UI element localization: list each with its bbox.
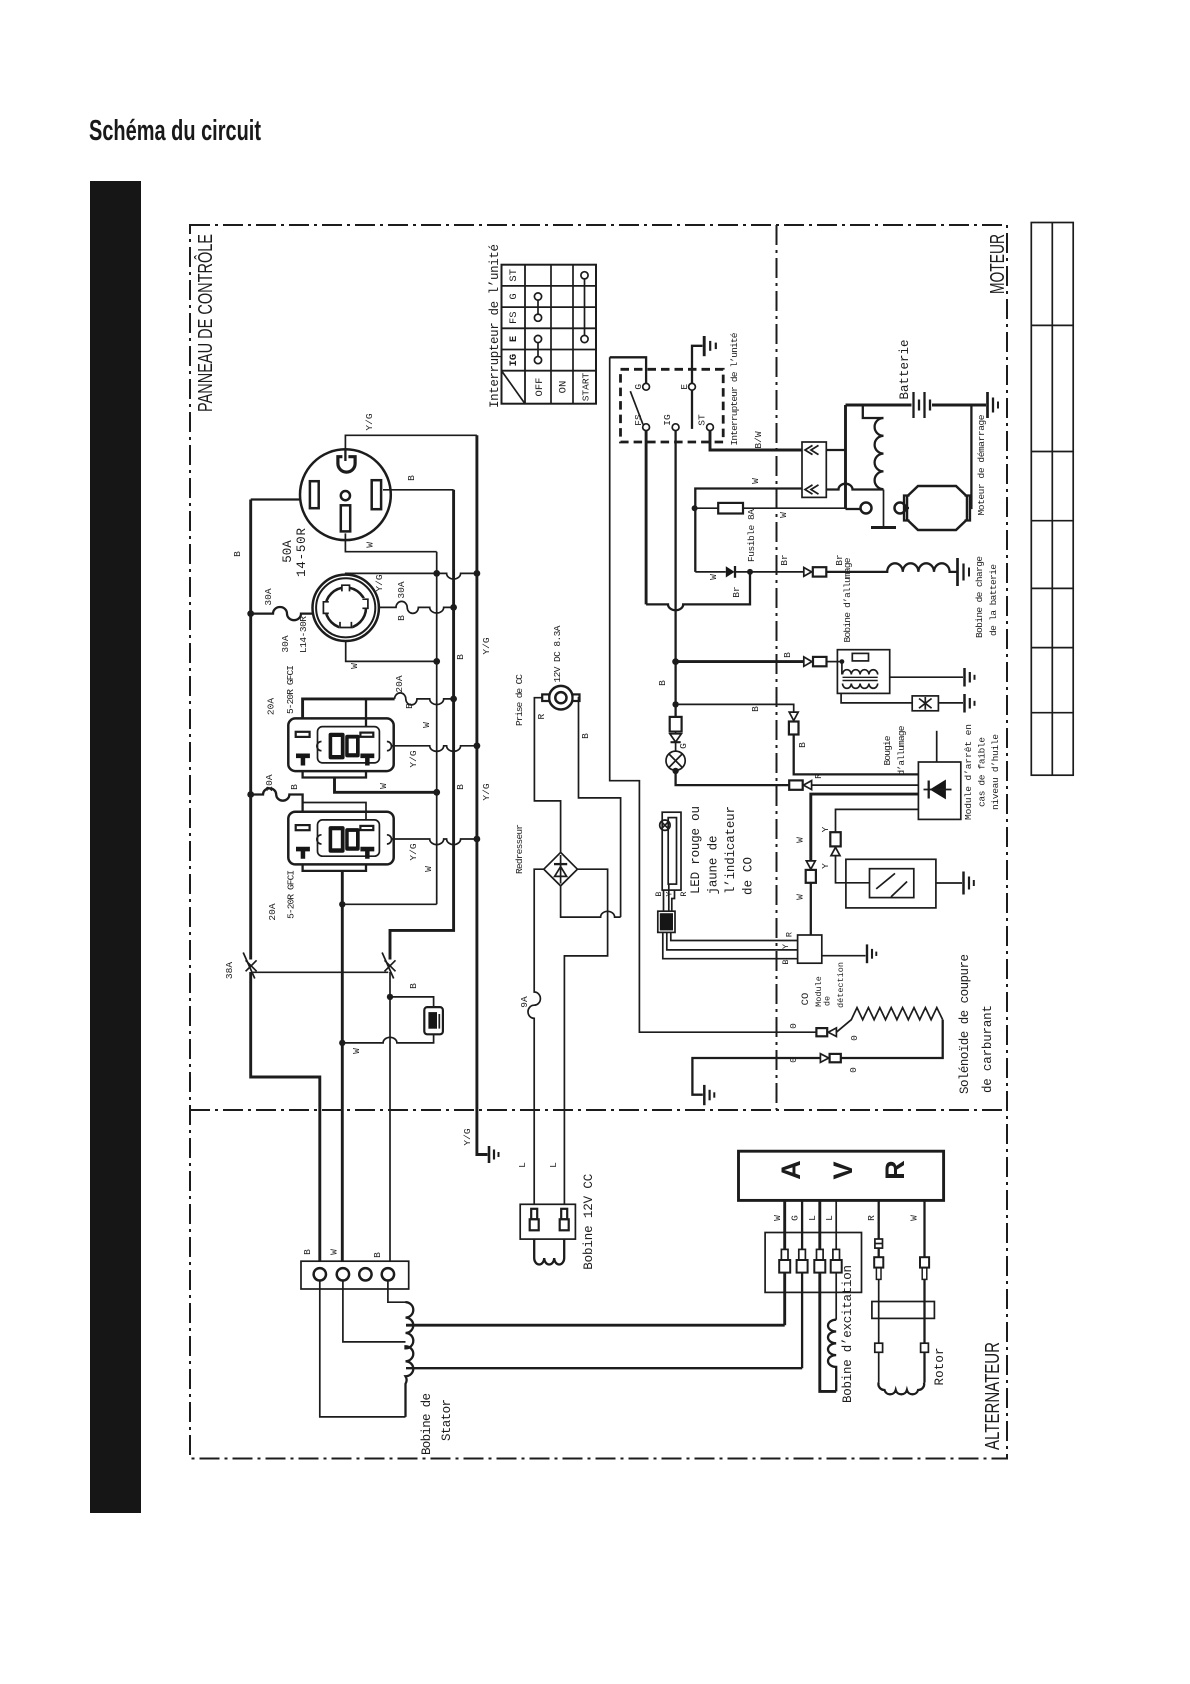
svg-text:ST: ST (697, 414, 708, 426)
main trunk from IG (674, 431, 676, 717)
svg-text:B: B (232, 551, 243, 557)
wire L14-30R right pin B + 30A breaker (379, 601, 454, 613)
ground (battery) (988, 392, 999, 418)
GFCI1 side notches (317, 742, 322, 751)
connector pins W (779, 1249, 790, 1272)
strip terminal 3 (359, 1268, 371, 1280)
fuse 8A body (718, 503, 743, 514)
wire GFCI1 Y/G (392, 746, 477, 752)
wire 14-50R B right (383, 489, 454, 491)
junction dot Y/G bus (474, 742, 481, 749)
junction dot left bus (247, 791, 254, 798)
svg-text:B: B (404, 703, 415, 709)
svg-text:20A: 20A (264, 774, 275, 791)
svg-text:Stator: Stator (440, 1399, 454, 1441)
wire L14-30R bottom W (346, 641, 437, 661)
stator wire terminal2 to coil mid (343, 1281, 406, 1342)
svg-text:B: B (372, 1252, 383, 1258)
svg-text:Interrupteur de l’unité: Interrupteur de l’unité (488, 244, 502, 408)
14-50R left slot (310, 481, 319, 508)
diode below fuse (670, 732, 681, 752)
svg-text:W: W (349, 663, 360, 669)
oil sensor slashes (876, 873, 907, 897)
svg-text:L: L (517, 1162, 528, 1168)
svg-text:B: B (396, 615, 407, 621)
svg-text:B: B (797, 742, 808, 748)
ignition coil inner resistor (852, 653, 868, 661)
svg-text:Br: Br (731, 586, 742, 597)
svg-text:B/W: B/W (753, 431, 764, 448)
svg-text:FS: FS (508, 311, 520, 324)
stator W output to AVR (406, 1324, 785, 1327)
GFCI1 inner outline (318, 727, 380, 763)
svg-text:Y/G: Y/G (408, 843, 419, 860)
B distribution bus (390, 490, 454, 960)
svg-text:Y/G: Y/G (408, 750, 419, 767)
wire to 12V socket top (390, 997, 434, 1007)
ground (fuel solenoid) (704, 1085, 714, 1105)
AVR W wire down-left (783, 1273, 786, 1326)
svg-text:Br: Br (779, 554, 790, 565)
stator terminal strip (301, 1261, 409, 1289)
svg-text:5-20R GFCI: 5-20R GFCI (286, 870, 297, 919)
svg-text:G: G (633, 384, 644, 390)
38A tie bar (253, 971, 388, 973)
stator wire terminal1 to coil bottom (320, 1281, 406, 1417)
starter connector box (802, 442, 826, 497)
svg-text:B: B (781, 959, 791, 964)
svg-text:ON: ON (558, 381, 570, 394)
wire right contact to motor (906, 507, 910, 509)
svg-text:Y: Y (781, 944, 791, 949)
wire E lower stub (691, 390, 693, 429)
ground (CO module) (867, 944, 876, 963)
AVR pin L2 (835, 1200, 837, 1249)
GFCI2 T-slots (296, 847, 374, 859)
svg-text:W: W (421, 722, 432, 728)
battery symbol (846, 392, 987, 418)
svg-text:G: G (678, 743, 689, 749)
svg-text:Rotor: Rotor (933, 1348, 947, 1386)
12V accessory socket (424, 1007, 443, 1034)
svg-text:niveau d’huile: niveau d’huile (990, 734, 1001, 810)
low-oil module top stub (936, 731, 938, 762)
OFF contacts G-FS (534, 293, 541, 321)
junction dot Y/G/link (474, 570, 481, 577)
svg-text:R: R (785, 932, 795, 937)
wire L14-30R left pin + 30A breaker (251, 607, 313, 620)
svg-text:START: START (581, 372, 592, 401)
svg-text:30A: 30A (396, 581, 407, 598)
CO module box (798, 935, 822, 963)
spark plug (Bougie) (912, 696, 938, 711)
svg-text:Y/G: Y/G (364, 413, 375, 430)
svg-text:MOTEUR: MOTEUR (987, 234, 1009, 294)
GFCI2 buttons (329, 826, 360, 853)
FS wire vertical (645, 431, 648, 605)
excitation coil (Bobine d'excitation) (828, 1320, 836, 1392)
svg-text:Fusible 8A: Fusible 8A (746, 509, 757, 562)
strip terminal 2 (337, 1268, 349, 1280)
battery charge coil (826, 563, 956, 572)
svg-text:W: W (329, 1249, 340, 1255)
AVR box (739, 1151, 944, 1200)
section divider horizontal (ALTERNATEUR) (190, 1109, 1007, 1111)
svg-text:W: W (909, 1215, 920, 1221)
svg-text:G: G (508, 293, 520, 299)
svg-text:Bobine de charge: Bobine de charge (974, 556, 985, 638)
DC socket (Prise de CC) (542, 686, 579, 710)
W distribution bus (436, 552, 438, 905)
svg-text:OFF: OFF (534, 378, 546, 397)
svg-text:B: B (302, 1249, 313, 1255)
stator wire terminal4 to coil top (388, 1281, 406, 1303)
svg-text:W: W (750, 478, 761, 484)
wire GFCI1 B feed + 20A breaker (303, 699, 395, 719)
L14-30R slot gaps (323, 584, 369, 629)
LED connector block (658, 911, 675, 932)
connector pins L1 (814, 1249, 825, 1272)
strip terminal 1 (314, 1268, 326, 1280)
solenoid plunger (883, 490, 885, 527)
thick B wire to ignition coil connector (676, 660, 804, 663)
svg-text:B: B (750, 706, 761, 712)
junction dot W bus (433, 658, 440, 665)
wire GFCI2 top-right pin (303, 803, 366, 820)
wire sensor to ground (936, 882, 962, 884)
svg-text:Batterie: Batterie (898, 340, 912, 400)
svg-text:Bobine de: Bobine de (420, 1393, 434, 1455)
thin B wire to module connector (676, 704, 794, 712)
LED wires to CO module Y (667, 932, 798, 950)
wire 14-50R W bottom (345, 533, 436, 551)
svg-text:Module d’arrêt en: Module d’arrêt en (963, 724, 974, 820)
AVR pin W2 (923, 1200, 925, 1257)
ground (Y/G bus) (489, 1146, 499, 1163)
solenoid return wire (841, 1020, 943, 1058)
svg-text:Schéma du circuit: Schéma du circuit (89, 115, 261, 147)
svg-text:Redresseur: Redresseur (514, 824, 525, 874)
svg-text:CO: CO (800, 993, 812, 1006)
svg-text:R: R (536, 713, 547, 719)
wire G up-left (610, 357, 646, 383)
ground (spark plug) (965, 694, 975, 713)
svg-text:IG: IG (662, 414, 673, 426)
LED wires to CO module B (663, 932, 798, 958)
G wire from switch down (610, 357, 817, 1032)
svg-text:B: B (782, 652, 793, 658)
14-50R center hole (341, 491, 350, 500)
svg-text:G: G (790, 1215, 801, 1221)
connector (R module) (789, 780, 811, 789)
wire GFCI2 B feed + 20A breaker (251, 788, 303, 811)
svg-text:20A: 20A (267, 903, 278, 920)
indicator lamp (666, 751, 685, 770)
junction dot lamp bottom (672, 768, 678, 774)
GFCI outlet 1 body (288, 718, 393, 771)
stator coil (406, 1302, 414, 1417)
svg-text:de la batterie: de la batterie (988, 564, 999, 636)
START contacts ST-E (581, 272, 588, 343)
svg-text:L: L (548, 1162, 559, 1168)
svg-text:B: B (455, 654, 466, 660)
wire 14-50R left pin to left bus (251, 498, 300, 500)
svg-text:l’indicateur: l’indicateur (724, 806, 738, 894)
B wire below right breaker pole (389, 972, 391, 1261)
AVR pin G (801, 1200, 803, 1249)
svg-text:W: W (772, 1215, 783, 1221)
chevrons (lower pin) (805, 485, 819, 494)
svg-text:B: B (408, 983, 419, 989)
junction dot Br node (747, 569, 753, 575)
svg-text:0: 0 (788, 1023, 799, 1029)
svg-text:B: B (580, 733, 591, 739)
chevrons (upper pin) (805, 445, 819, 454)
ignition coil windings (842, 662, 878, 689)
svg-text:W: W (364, 542, 375, 548)
R wire plug (874, 1248, 883, 1279)
LED assembly outer box (662, 812, 681, 890)
L14-30R blade tabs (323, 585, 368, 627)
diode (W to Br) (695, 566, 735, 578)
svg-text:0: 0 (849, 1035, 860, 1041)
svg-text:50A: 50A (281, 540, 295, 563)
Bobine 12V CC box (520, 1204, 575, 1239)
svg-text:ALTERNATEUR: ALTERNATEUR (982, 1342, 1004, 1450)
LED wires to CO module R (671, 932, 798, 940)
slip ring block (872, 1302, 935, 1319)
svg-text:L14-30R: L14-30R (298, 616, 309, 653)
wire battery to left contact (846, 508, 861, 510)
fuel solenoid winding (zigzag) (836, 1008, 942, 1033)
svg-text:W: W (795, 894, 806, 900)
svg-text:IG: IG (508, 354, 520, 367)
svg-text:A: A (776, 1160, 806, 1180)
connector (solenoid feed) (816, 1028, 836, 1037)
14-50R bottom slot (341, 505, 350, 531)
wire CO module to ground (822, 955, 866, 957)
svg-text:Y/G: Y/G (374, 574, 385, 591)
outlet 14-50R body (300, 449, 391, 540)
svg-text:R: R (866, 1215, 877, 1221)
switch terminal IG (672, 424, 679, 431)
svg-text:Y/G: Y/G (481, 637, 492, 654)
GFCI1 buttons (329, 733, 360, 760)
R wire lower (878, 1352, 880, 1382)
38A breaker left pole X (243, 953, 256, 979)
svg-text:détection: détection (836, 962, 846, 1008)
junction dot trunk thin B (672, 701, 678, 707)
GFCI1 slots (296, 732, 374, 737)
svg-text:W: W (708, 574, 719, 580)
wire coil secondary to ground (890, 676, 963, 678)
svg-text:5-20R GFCI: 5-20R GFCI (285, 665, 296, 714)
AVR L2 wire + excitation coil (835, 1273, 837, 1320)
starter motor body (907, 486, 967, 530)
14-50R ground D-slot (338, 457, 355, 472)
svg-text:W: W (351, 1048, 362, 1054)
ignition switch dashed box (621, 369, 724, 442)
W line to stator strip (341, 904, 344, 1261)
wire 12V socket bottom to W (342, 1034, 433, 1043)
svg-text:W: W (423, 866, 434, 872)
fuse on trunk (670, 717, 682, 732)
AVR pin W (783, 1200, 786, 1249)
AVR G wire down-left (801, 1273, 803, 1369)
OFF contacts E-IG (534, 335, 541, 363)
svg-text:30A: 30A (280, 635, 291, 652)
AVR L1 wire down (820, 1273, 836, 1392)
svg-text:B: B (654, 891, 664, 896)
Bobine 12V CC winding (534, 1239, 564, 1264)
wire GFCI1 W bottom (303, 771, 366, 777)
wire 14-50R Y/G top (345, 435, 477, 452)
connector pins G (797, 1249, 808, 1272)
svg-text:E: E (508, 336, 520, 342)
junction dot Y/G bus (474, 836, 481, 843)
junction dot 12V socket B (387, 994, 393, 1000)
svg-text:B: B (289, 784, 300, 790)
wire coil to spark plug (841, 693, 912, 703)
solenoid contact bar (871, 526, 896, 529)
section divider vertical (PANNEAU/MOTEUR) (776, 225, 778, 1110)
diagram frame (dash-dot border) (190, 225, 1007, 1459)
ignition coil feed dot (840, 659, 845, 664)
switch terminal FS (643, 424, 650, 431)
svg-text:38A: 38A (224, 962, 235, 979)
connector (B ignition coil) (804, 657, 827, 666)
starter motor left bracket (904, 496, 910, 521)
wire DC socket R (left) down (534, 698, 560, 853)
svg-text:B: B (455, 784, 466, 790)
rotor winding (878, 1383, 924, 1395)
W2 junction square (921, 1343, 929, 1352)
switch terminal G (643, 383, 650, 390)
Y/G distribution bus (477, 435, 488, 1154)
wire connector to battery feed (826, 449, 845, 451)
svg-text:PANNEAU DE CONTRÔLE: PANNEAU DE CONTRÔLE (194, 234, 217, 412)
svg-text:L: L (807, 1215, 818, 1221)
svg-text:V: V (828, 1161, 858, 1179)
junction dot W bus (433, 789, 440, 796)
switch terminal ST (707, 424, 714, 431)
junction dot left bus (247, 610, 254, 617)
svg-text:W: W (378, 783, 389, 789)
svg-text:R: R (880, 1160, 910, 1180)
B wire to low-oil module (794, 735, 919, 775)
wire rectifier left to 9A fuse to coil (528, 869, 544, 1204)
LED wires to connector (664, 884, 675, 911)
Y wire module to sensor (836, 809, 919, 832)
starter contact right (895, 503, 906, 514)
switch position table grid (502, 265, 597, 404)
junction dot W line (339, 1040, 345, 1046)
Y wire to sensor inner box (836, 856, 870, 883)
starter solenoid coil (875, 418, 884, 489)
solenoid return to ground (692, 1058, 820, 1095)
Br wire to connector (735, 571, 804, 573)
wire DC socket B (right) down (579, 698, 621, 917)
junction dot trunk B arrow (672, 658, 679, 665)
junction dot B bus (450, 696, 457, 703)
svg-text:d’allumage: d’allumage (896, 725, 907, 775)
R wire fuse link (875, 1239, 883, 1248)
table corner diagonal (502, 371, 526, 404)
B/W wire from ST (710, 431, 802, 450)
connector (W to CO module) (806, 861, 816, 883)
svg-text:Bobine d’allumage: Bobine d’allumage (842, 557, 853, 642)
svg-text:20A: 20A (394, 675, 405, 692)
W bus bottom link (342, 903, 436, 905)
svg-text:14-50R: 14-50R (295, 528, 309, 577)
connector (Y oil sensor) (830, 832, 840, 855)
connector (B module, vertical) (789, 712, 799, 734)
GFCI2 side notches (317, 835, 322, 844)
Bobine 12V CC pins (531, 1209, 567, 1220)
junction dot fuse left (692, 505, 698, 511)
wire spark plug to ground (938, 702, 963, 704)
fuse 8A wire (695, 507, 846, 509)
stator G output to AVR (406, 1367, 802, 1369)
LED symbol (660, 820, 670, 830)
svg-text:Bobine 12V CC: Bobine 12V CC (582, 1174, 596, 1270)
W2 wire to rotor (923, 1279, 925, 1343)
R wire lamp to connector (676, 771, 790, 785)
solenoid coil feed (863, 405, 884, 418)
svg-text:L: L (824, 1215, 835, 1221)
wire rectifier bottom (561, 886, 621, 917)
ground (coil secondary) (965, 668, 975, 687)
svg-text:E: E (679, 384, 690, 390)
R wire to module (812, 784, 919, 786)
starter motor right bracket (965, 496, 971, 521)
wire connector to coil (827, 661, 842, 663)
ground (ignition switch E) (704, 336, 716, 356)
battery positive drop (844, 405, 847, 509)
svg-text:12V DC 8.3A: 12V DC 8.3A (552, 625, 563, 682)
svg-text:Prise de CC: Prise de CC (514, 674, 525, 726)
svg-text:jaune de: jaune de (707, 836, 721, 895)
starter contact left (861, 503, 872, 514)
ground (oil sensor) (964, 872, 974, 895)
svg-text:B: B (657, 680, 668, 686)
AVR pin L1 (818, 1200, 821, 1249)
GFCI2 inner outline (318, 820, 380, 856)
GFCI2 slots (296, 825, 374, 830)
svg-text:Bougie: Bougie (882, 735, 893, 765)
svg-text:20A: 20A (266, 698, 277, 715)
wire GFCI2 Y/G (392, 839, 477, 845)
revision table (right margin, empty) (1031, 223, 1073, 776)
ground (charge coil) (958, 558, 970, 586)
W wire module to CO module (811, 794, 919, 861)
svg-text:R: R (813, 773, 824, 779)
svg-text:Interrupteur de l’unité: Interrupteur de l’unité (729, 332, 740, 445)
svg-text:de CO: de CO (742, 857, 756, 895)
svg-text:W: W (795, 837, 806, 843)
svg-text:0: 0 (848, 1067, 859, 1073)
GFCI1 T-slots (296, 754, 374, 766)
svg-text:9A: 9A (519, 996, 530, 1008)
low-oil module box (918, 762, 960, 819)
excitation connector box (765, 1233, 861, 1293)
wire E to ground (692, 346, 703, 384)
svg-text:Moteur de démarrage: Moteur de démarrage (976, 414, 987, 515)
svg-text:de: de (823, 996, 833, 1006)
left black sidebar (90, 181, 141, 1513)
R wire to rotor (878, 1279, 880, 1343)
W wire (relay to diode node) (801, 487, 803, 489)
